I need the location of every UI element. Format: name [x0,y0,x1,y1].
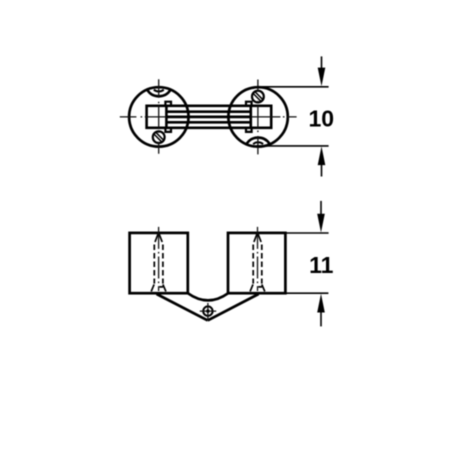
left plate circle [129,87,188,146]
right housing top tab [246,102,252,106]
left bottom screw head [153,131,165,143]
right screw head flare hidden lines [250,284,265,291]
right plate circle [228,87,287,146]
left screw head flare hidden lines [151,284,166,291]
left circle vertical centerline [158,79,160,154]
left top screw edge-on arc [148,90,171,96]
V bracket right edge [208,294,259,320]
right block screw centerline [257,227,259,291]
right screw shaft hidden lines [253,245,262,284]
svg-text:10: 10 [309,105,335,131]
dim 11 top extension line [285,232,328,234]
connector bar line 4 [166,121,250,124]
right housing bottom tab [246,128,252,132]
right screw tip cone hidden lines [254,234,261,242]
right block rectangle [228,233,285,293]
connector bar line 1 (top edge) [165,104,252,107]
left housing bottom tab [165,128,171,132]
left screw tip cone hidden lines [155,234,162,242]
connector bar line 3 (middle) [166,116,250,119]
connector bar line 5 (bottom edge) [165,126,252,129]
left bottom screw slot [154,132,164,142]
dim 10 top arrow [318,56,326,86]
V bracket left edge [157,294,208,320]
left housing block [147,106,167,128]
left block screw centerline [158,227,160,291]
left screw shaft hidden lines [154,245,163,284]
pivot hole vertical centerline [207,303,209,320]
dim 10 bottom arrow [318,146,326,176]
left block rectangle [130,233,188,293]
U curve between blocks [188,293,228,300]
connector bar line 2 [166,110,250,113]
left housing top tab [165,102,171,106]
dim 10 top extension line [257,86,329,88]
right bottom screw edge-on arc [247,138,270,144]
right bottom screw slot arc [253,142,263,144]
right circle horizontal centerline [251,116,297,118]
pivot hole circle [203,306,212,315]
right housing block [251,106,271,128]
left top screw slot arc [154,90,164,92]
right top screw head [252,91,264,103]
svg-text:11: 11 [309,252,334,278]
right top screw slot [253,92,263,102]
dim 11 top arrow [317,201,325,233]
dim 11 bottom extension line [285,292,328,294]
dim 11 bottom arrow [317,294,325,327]
right circle vertical centerline [257,80,259,155]
left circle horizontal centerline [120,116,167,118]
pivot hole horizontal centerline [200,310,216,312]
dim 10 bottom extension line [256,145,328,147]
pivot hole center dot [206,310,209,313]
